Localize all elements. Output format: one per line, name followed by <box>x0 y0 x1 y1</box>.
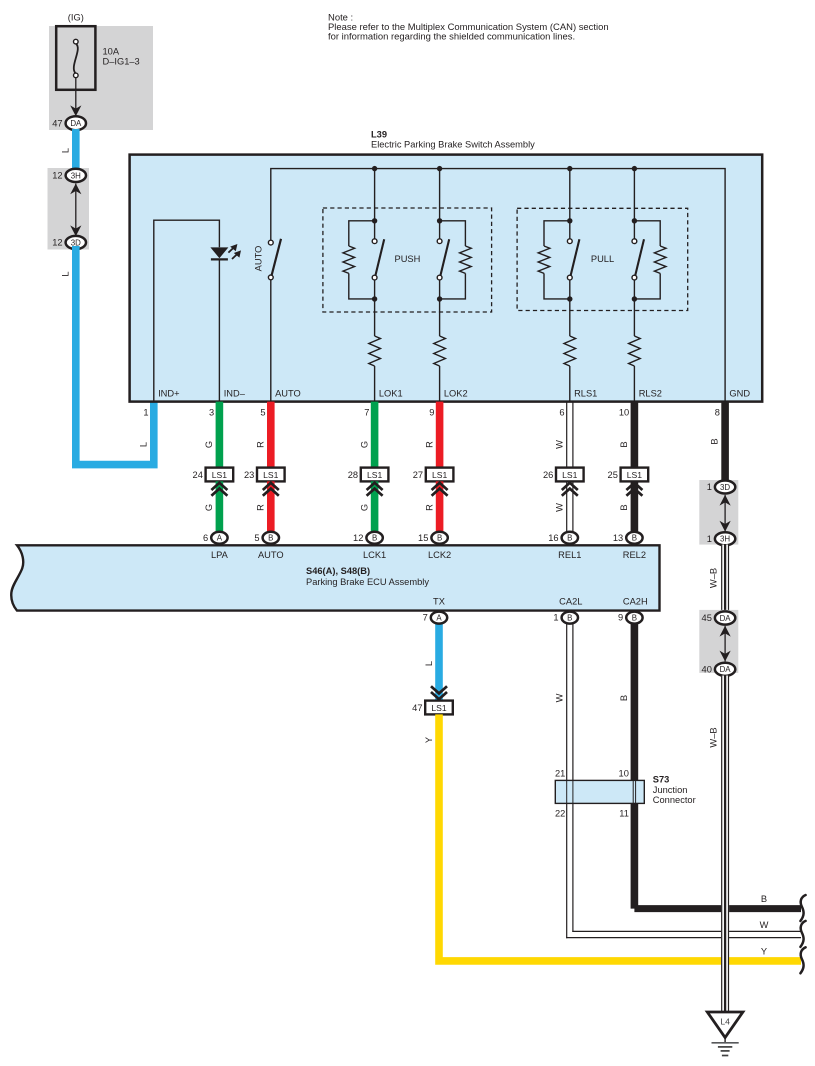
svg-text:W: W <box>555 503 565 512</box>
wire B CA2H <box>631 617 639 909</box>
svg-text:LS1: LS1 <box>212 470 228 480</box>
svg-text:GND: GND <box>729 388 750 398</box>
svg-text:3H: 3H <box>720 535 730 544</box>
edge squiggle Y <box>800 947 805 973</box>
connector 23 LS1 <box>257 468 285 482</box>
svg-text:AUTO: AUTO <box>275 388 301 398</box>
svg-text:A: A <box>217 534 223 543</box>
svg-text:1: 1 <box>553 613 558 623</box>
dashed box PULL <box>517 208 688 310</box>
svg-text:LOK2: LOK2 <box>444 388 468 398</box>
svg-text:6: 6 <box>559 408 564 418</box>
connector 1 3H right <box>715 532 735 545</box>
wire W-B 3H to DA <box>721 545 729 615</box>
fuse block shaded area <box>49 26 153 130</box>
svg-text:1: 1 <box>143 408 148 418</box>
svg-text:L: L <box>60 148 70 153</box>
svg-text:for information regarding the: for information regarding the shielded c… <box>328 31 575 42</box>
svg-text:RLS2: RLS2 <box>639 388 662 398</box>
svg-text:IND+: IND+ <box>158 388 179 398</box>
wire Y TX to edge <box>439 714 801 961</box>
svg-text:12: 12 <box>353 533 363 543</box>
svg-text:Junction: Junction <box>653 785 688 795</box>
connector 25 LS1 <box>621 468 649 482</box>
dashed box PUSH <box>323 208 492 312</box>
svg-text:B: B <box>632 534 637 543</box>
svg-text:S73: S73 <box>653 774 670 784</box>
svg-text:W: W <box>555 693 565 702</box>
svg-text:W–B: W–B <box>708 568 718 588</box>
svg-text:5: 5 <box>260 408 265 418</box>
twisted-pair chevrons <box>371 481 379 543</box>
svg-text:DA: DA <box>720 614 732 623</box>
svg-text:12: 12 <box>52 171 62 181</box>
svg-text:TX: TX <box>433 596 445 606</box>
svg-text:L: L <box>139 442 149 447</box>
connector pair arrows right <box>724 495 726 532</box>
svg-text:PUSH: PUSH <box>395 254 421 264</box>
wire L fuse to 3H <box>72 129 80 172</box>
ECU top pin ovals <box>211 532 227 544</box>
ground L4 <box>707 1012 743 1038</box>
svg-text:1: 1 <box>707 534 712 544</box>
node RLS1 rail <box>567 166 572 171</box>
svg-text:8: 8 <box>715 408 720 418</box>
svg-text:3D: 3D <box>720 483 730 492</box>
svg-text:23: 23 <box>244 470 254 480</box>
svg-text:Electric Parking Brake Switch: Electric Parking Brake Switch Assembly <box>371 140 535 150</box>
svg-text:7: 7 <box>423 613 428 623</box>
chevrons into LS1 47 <box>431 692 447 699</box>
svg-text:AUTO: AUTO <box>254 246 264 272</box>
wire W pin to LS1 #26 <box>566 402 568 468</box>
svg-text:B: B <box>619 441 629 447</box>
wire L TX <box>435 617 443 701</box>
svg-text:AUTO: AUTO <box>258 550 284 560</box>
connector pair arrows 3H-3D <box>75 184 77 237</box>
svg-text:DA: DA <box>720 665 732 674</box>
wire B GND to 3D <box>721 402 729 483</box>
edge squiggle B <box>800 895 805 921</box>
svg-text:9: 9 <box>618 613 623 623</box>
connector 1 3D right <box>715 481 735 494</box>
svg-text:24: 24 <box>193 470 203 480</box>
svg-text:10: 10 <box>619 408 629 418</box>
svg-text:REL1: REL1 <box>558 550 581 560</box>
svg-text:25: 25 <box>608 470 618 480</box>
svg-text:LS1: LS1 <box>431 703 447 713</box>
series resistor at x=569.8 <box>569 299 571 336</box>
svg-text:B: B <box>567 534 572 543</box>
connector 47 DA <box>66 116 86 130</box>
svg-text:LS1: LS1 <box>263 470 279 480</box>
svg-text:28: 28 <box>348 470 358 480</box>
twisted-pair chevrons <box>436 481 444 543</box>
svg-text:45: 45 <box>702 613 712 623</box>
svg-text:27: 27 <box>413 470 423 480</box>
wire IND+ to LED <box>154 220 220 401</box>
wire G pin to LS1 #28 <box>371 402 379 468</box>
svg-text:Y: Y <box>761 947 767 957</box>
twisted-pair chevrons <box>631 481 639 543</box>
svg-text:Y: Y <box>424 737 434 743</box>
svg-text:W: W <box>760 920 769 930</box>
svg-text:CA2L: CA2L <box>559 596 582 606</box>
svg-text:R: R <box>256 504 266 511</box>
series resistor at x=374.6 <box>374 299 376 336</box>
fuse F1 10A D-IG1-3 <box>56 26 95 90</box>
svg-text:RLS1: RLS1 <box>574 388 597 398</box>
svg-text:L: L <box>60 271 70 276</box>
svg-text:DA: DA <box>70 119 82 128</box>
wire B pin to LS1 #25 <box>631 402 639 468</box>
connector 40 DA <box>715 663 735 676</box>
svg-text:B: B <box>710 438 720 444</box>
wire R pin to LS1 #23 <box>267 402 275 468</box>
switch branch at x=374.6 <box>374 169 376 239</box>
LED D1 <box>210 247 228 258</box>
svg-text:W: W <box>555 440 565 449</box>
svg-text:R: R <box>256 441 266 448</box>
gray shield box DA-DA <box>699 610 738 673</box>
svg-text:26: 26 <box>543 470 553 480</box>
svg-text:10A: 10A <box>103 47 120 57</box>
svg-text:B: B <box>761 894 767 904</box>
svg-text:B: B <box>567 614 572 623</box>
L39 switch assembly box <box>130 155 763 402</box>
wire W-B DA to ground <box>721 676 729 1013</box>
node LOK2 rail <box>437 166 442 171</box>
connector 12 3H <box>66 169 86 182</box>
svg-text:L4: L4 <box>720 1017 730 1027</box>
connector 26 LS1 <box>556 468 584 482</box>
ECU bottom pin ovals <box>431 612 447 624</box>
connector 12 3D <box>66 236 86 249</box>
gray shield box 3D-3H right <box>699 480 738 545</box>
svg-text:G: G <box>204 504 214 511</box>
svg-text:S46(A), S48(B): S46(A), S48(B) <box>306 566 370 576</box>
svg-text:G: G <box>359 441 369 448</box>
svg-text:6: 6 <box>203 533 208 543</box>
svg-text:W–B: W–B <box>708 727 718 747</box>
svg-text:L39: L39 <box>371 130 387 140</box>
svg-text:12: 12 <box>52 238 62 248</box>
twisted-pair chevrons <box>566 481 568 543</box>
node LOK1 rail <box>372 166 377 171</box>
svg-text:REL2: REL2 <box>623 550 646 560</box>
svg-text:G: G <box>359 504 369 511</box>
series resistor at x=439.6 <box>439 299 441 336</box>
wire L 3D to L39 pin 1 <box>76 246 154 465</box>
svg-text:LS1: LS1 <box>562 470 578 480</box>
svg-text:B: B <box>437 534 442 543</box>
svg-text:3: 3 <box>209 408 214 418</box>
top rail wire <box>271 169 725 402</box>
svg-text:22: 22 <box>555 809 565 819</box>
connector 28 LS1 <box>361 468 389 482</box>
node RLS2 rail <box>632 166 637 171</box>
svg-text:15: 15 <box>418 533 428 543</box>
svg-text:B: B <box>619 695 629 701</box>
wire LED to IND- <box>218 259 220 401</box>
twisted-pair chevrons <box>267 481 275 543</box>
series resistor at x=634.4 <box>633 299 635 336</box>
svg-text:LOK1: LOK1 <box>379 388 403 398</box>
svg-text:LS1: LS1 <box>367 470 383 480</box>
wire G pin to LS1 #24 <box>216 402 224 468</box>
wire W CA2L <box>566 617 568 938</box>
wire R pin to LS1 #27 <box>436 402 444 468</box>
svg-text:B: B <box>632 614 637 623</box>
svg-text:A: A <box>436 614 442 623</box>
connector 47 LS1 <box>425 701 453 715</box>
svg-text:LS1: LS1 <box>432 470 448 480</box>
svg-text:R: R <box>424 504 434 511</box>
connector 27 LS1 <box>426 468 454 482</box>
svg-text:LPA: LPA <box>211 550 229 560</box>
switch branch at x=569.8 <box>569 169 571 239</box>
svg-text:10: 10 <box>619 768 629 778</box>
twisted-pair chevrons <box>216 481 224 543</box>
svg-text:7: 7 <box>364 408 369 418</box>
junction connector S73 <box>555 780 644 803</box>
gray shield box 3H-3D <box>48 168 90 250</box>
switch branch at x=439.6 <box>439 169 441 239</box>
svg-text:LCK1: LCK1 <box>363 550 386 560</box>
svg-text:40: 40 <box>702 664 712 674</box>
connector 45 DA <box>715 611 735 624</box>
svg-text:21: 21 <box>555 768 565 778</box>
connector pair arrows DA <box>724 626 726 662</box>
svg-text:B: B <box>619 504 629 510</box>
svg-text:13: 13 <box>613 533 623 543</box>
svg-text:16: 16 <box>548 533 558 543</box>
svg-text:47: 47 <box>412 703 422 713</box>
svg-text:B: B <box>372 534 377 543</box>
svg-text:11: 11 <box>619 809 629 819</box>
svg-text:D–IG1–3: D–IG1–3 <box>103 57 140 67</box>
ECU box S46/S48 <box>11 545 659 610</box>
connector 24 LS1 <box>206 468 234 482</box>
svg-text:LS1: LS1 <box>627 470 643 480</box>
svg-text:Connector: Connector <box>653 795 696 805</box>
svg-text:5: 5 <box>254 533 259 543</box>
svg-text:CA2H: CA2H <box>623 596 648 606</box>
svg-text:(IG): (IG) <box>68 13 84 23</box>
svg-text:9: 9 <box>429 408 434 418</box>
svg-text:LCK2: LCK2 <box>428 550 451 560</box>
svg-text:B: B <box>268 534 273 543</box>
svg-text:Parking Brake ECU Assembly: Parking Brake ECU Assembly <box>306 577 429 587</box>
switch branch at x=634.4 <box>633 169 635 239</box>
svg-text:47: 47 <box>52 118 62 128</box>
svg-text:IND–: IND– <box>224 388 246 398</box>
svg-text:L: L <box>424 661 434 666</box>
svg-text:1: 1 <box>707 482 712 492</box>
svg-text:G: G <box>204 441 214 448</box>
edge squiggle W <box>800 921 805 947</box>
svg-text:PULL: PULL <box>591 254 614 264</box>
wire fuse to connector DA <box>75 78 77 115</box>
svg-text:R: R <box>424 441 434 448</box>
svg-text:3H: 3H <box>71 171 81 180</box>
